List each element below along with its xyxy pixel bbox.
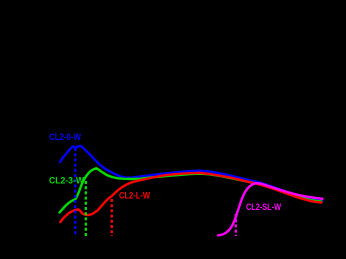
curve CL2-0-W (blue spectrum) [60,146,322,201]
dotted marker line blue (x=75.3) [74,148,76,236]
curve CL2-SL-W (magenta spectrum) [218,183,323,235]
svg-text:CL2-SL-W: CL2-SL-W [246,202,281,212]
dotted marker line red (x=111.7) [111,199,113,236]
dotted marker line green (x=85.8) [85,181,87,236]
svg-text:CL2-3-W: CL2-3-W [49,176,84,186]
svg-text:CL2-0-W: CL2-0-W [49,132,81,142]
svg-text:CL2-L-W: CL2-L-W [119,190,150,200]
curve CL2-L-W (red spectrum) [60,173,321,222]
dotted marker line magenta (x=235.8) [235,214,237,236]
curve CL2-3-W (green spectrum) [60,168,322,212]
